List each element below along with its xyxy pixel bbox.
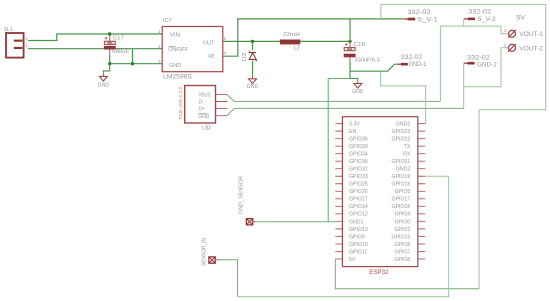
ESP32 pin label GPIO34	[349, 152, 368, 158]
wire C18 to ground node	[349, 62, 351, 78]
svg-text:1: 1	[25, 43, 28, 48]
svg-text:VBUS: VBUS	[199, 93, 212, 99]
label LM2596S	[163, 74, 192, 80]
svg-text:GPIO8: GPIO8	[394, 242, 410, 248]
label SL1	[4, 27, 13, 33]
wire D2 to ground	[252, 61, 254, 75]
screw terminal VOUT-2	[508, 44, 516, 52]
label GND-2	[477, 62, 497, 68]
junction switch node / C18	[348, 40, 351, 43]
inductor L2	[280, 40, 300, 45]
ESP32 pin label GPIO23	[392, 129, 411, 135]
svg-text:GPIO12: GPIO12	[349, 212, 368, 218]
wire 5V sense drop to C18 node	[349, 19, 351, 42]
pin number 1 (VOUT-1)	[504, 28, 507, 34]
svg-text:IC7: IC7	[163, 18, 172, 24]
svg-text:VOUT-2: VOUT-2	[519, 46, 543, 52]
svg-text:GPIO5: GPIO5	[394, 189, 410, 195]
label ESP32	[369, 270, 389, 276]
svg-text:GND: GND	[352, 89, 364, 95]
svg-text:TX: TX	[404, 144, 411, 150]
label 5_V-1	[418, 18, 439, 24]
ESP32 pin label GPIO15	[392, 234, 411, 240]
svg-text:1: 1	[504, 28, 507, 34]
wire ground branch to ESP32 GND2	[381, 71, 426, 123]
ESP32 pin label GPIO4	[394, 212, 410, 218]
pin label D+	[199, 107, 206, 113]
pin number 4 (FB)	[224, 51, 227, 56]
ESP32 pin label 3.3V	[349, 122, 360, 128]
wire to ground symbol near C17	[103, 64, 109, 72]
label GND (under C18)	[352, 89, 364, 95]
wire to VOUT-2	[464, 48, 509, 87]
svg-text:GND1: GND1	[349, 219, 364, 225]
ESP32 pin label RX	[403, 152, 411, 158]
pad 332-02 5_V-1	[404, 18, 416, 21]
pin label GND of U$2 with overline	[198, 113, 210, 120]
svg-text:22mH: 22mH	[283, 32, 300, 38]
ground symbol (under C18)	[354, 79, 362, 88]
svg-text:330uF/6.3: 330uF/6.3	[355, 58, 380, 64]
svg-text:GPIO11: GPIO11	[349, 249, 367, 255]
svg-text:4: 4	[224, 51, 227, 56]
ESP32 pin label GPIO25	[349, 182, 368, 188]
connector U$2 PCB USB-C	[185, 86, 228, 124]
label GND (under D2)	[247, 84, 259, 90]
svg-text:GPIO34: GPIO34	[349, 152, 368, 158]
svg-text:FB: FB	[208, 54, 214, 60]
svg-text:680uF: 680uF	[112, 49, 130, 55]
ESP32 pin label GND1	[349, 219, 364, 225]
wire 5_V-2 to VBUS rail	[440, 19, 501, 26]
pin number 1 of SL1	[25, 43, 28, 48]
pin label VIN	[170, 32, 181, 38]
wire ground node to GND-1 pad	[350, 64, 397, 71]
label GND_SENSOR	[239, 176, 245, 214]
pin number 3 (GND)	[158, 59, 161, 64]
ESP32 pin label GND3	[396, 167, 411, 173]
ESP32 pin label GPIO2	[394, 227, 410, 233]
svg-text:GND: GND	[198, 114, 210, 120]
label VOUT-2	[519, 46, 543, 52]
label C17	[113, 36, 124, 42]
junction on VIN rail at C17	[108, 32, 111, 35]
screw terminal VOUT-1	[508, 30, 516, 38]
op-amp regulator IC7 LM2596S box	[162, 27, 223, 72]
svg-text:GPIO18: GPIO18	[392, 182, 411, 188]
wire GND-2 riser	[463, 63, 465, 108]
svg-text:L2: L2	[294, 45, 300, 51]
svg-text:GPIO35: GPIO35	[349, 159, 368, 165]
pad 332-02 GND-1	[397, 63, 407, 66]
ESP32 pin label GPIO35	[349, 159, 368, 165]
ESP32 pin label GPIO14	[349, 204, 368, 210]
ESP32 pin label GPIO11	[349, 249, 367, 255]
svg-text:GPIO25: GPIO25	[349, 182, 368, 188]
svg-text:GND: GND	[247, 84, 259, 90]
pad SENSOR_IN	[209, 257, 215, 263]
label 5V	[516, 15, 525, 21]
svg-text:5V: 5V	[349, 257, 356, 263]
svg-text:ESP32: ESP32	[369, 270, 389, 276]
svg-text:U$2: U$2	[202, 126, 212, 132]
svg-text:VIN: VIN	[170, 32, 181, 38]
svg-text:GPIO4: GPIO4	[394, 212, 410, 218]
ESP32 pin label GPIO9	[349, 234, 365, 240]
value 22mH	[283, 32, 300, 38]
svg-text:GND3: GND3	[396, 167, 411, 173]
svg-text:GPIO9: GPIO9	[349, 234, 365, 240]
ESP32 pin label GPIO0	[394, 219, 410, 225]
svg-text:332-02: 332-02	[408, 10, 432, 16]
svg-text:GPIO27: GPIO27	[349, 197, 368, 203]
ESP32 pin label GPIO39	[349, 144, 368, 150]
svg-text:C18: C18	[353, 42, 365, 48]
svg-text:GPIO2: GPIO2	[394, 227, 410, 233]
junction ground rail / ON-OFF drop	[131, 62, 134, 65]
svg-text:2: 2	[504, 43, 507, 49]
wire USB GND line	[227, 108, 464, 115]
wire VBUS riser	[439, 26, 441, 101]
ESP32 pin label GPIO36	[349, 137, 368, 143]
svg-text:GPIO13: GPIO13	[349, 227, 368, 233]
svg-text:C17: C17	[113, 36, 124, 42]
svg-text:GPIO39: GPIO39	[349, 144, 368, 150]
wire ground rail to IC7 GND	[110, 63, 163, 65]
diode D2 (zener)	[249, 51, 256, 62]
svg-text:5: 5	[158, 44, 161, 49]
ESP32 pin label EN	[349, 129, 356, 135]
svg-text:GPIO16: GPIO16	[392, 204, 411, 210]
svg-text:GND-2: GND-2	[477, 62, 497, 68]
svg-text:D2: D2	[242, 52, 248, 61]
wire top 5V rail	[381, 4, 546, 288]
label L2	[294, 45, 300, 51]
wire OUT node down to D2	[252, 41, 254, 50]
ESP32 pin label GPIO17	[392, 197, 411, 203]
wire ESP32 5V pin to bottom rail	[335, 259, 479, 289]
label U$2	[202, 126, 212, 132]
svg-text:GND-1: GND-1	[409, 62, 428, 68]
svg-text:332-02: 332-02	[401, 55, 423, 61]
svg-text:GPIO0: GPIO0	[394, 219, 410, 225]
svg-text:332-02: 332-02	[468, 10, 492, 16]
svg-text:GPIO17: GPIO17	[392, 197, 411, 203]
svg-text:OUT: OUT	[203, 40, 215, 46]
svg-text:GPIO32: GPIO32	[349, 167, 368, 173]
ESP32 pin label GPIO7	[394, 249, 410, 255]
value 330uF/6.3	[355, 58, 380, 64]
svg-text:5_V-2: 5_V-2	[478, 17, 497, 23]
svg-text:GPIO7: GPIO7	[394, 249, 410, 255]
svg-text:GPIO15: GPIO15	[392, 234, 411, 240]
wire SENSOR_IN to GPIO19 rail	[220, 260, 238, 297]
wire FB to 5V sense line	[223, 19, 404, 56]
pin label FB	[208, 54, 214, 60]
ESP32 pin label GPIO33	[349, 174, 368, 180]
svg-text:GPIO36: GPIO36	[349, 137, 368, 143]
pad GND_SENSOR	[246, 219, 252, 225]
pin label OUT	[203, 40, 215, 46]
label 332-02 (GND-2)	[467, 55, 491, 61]
wire C17 to ground rail	[109, 55, 111, 64]
capacitor C18	[344, 41, 356, 62]
pad 332-02 GND-2	[464, 62, 475, 65]
svg-text:GPIO33: GPIO33	[349, 174, 368, 180]
wire OUT to L2 and C18 node	[223, 40, 350, 42]
ESP32 pin label GPIO27	[349, 197, 368, 203]
pin label VBUS	[199, 93, 212, 99]
svg-text:GND: GND	[98, 82, 110, 88]
svg-text:VOUT-1: VOUT-1	[519, 32, 543, 38]
svg-text:GPIO14: GPIO14	[349, 204, 368, 210]
wire GPIO19 to sensor rail	[238, 176, 449, 297]
label 5_V-2	[478, 17, 497, 23]
ESP32 pin label GPIO22	[392, 137, 411, 143]
ESP32 pin label GPIO16	[392, 204, 411, 210]
capacitor C17	[104, 34, 116, 55]
ESP32 pin label GPIO18	[392, 182, 411, 188]
ground symbol (under D2)	[249, 75, 257, 84]
label 332-02 (GND-1)	[401, 55, 423, 61]
ESP32 pin label GPIO19	[392, 174, 411, 180]
ESP32 pin label GPIO5	[394, 189, 410, 195]
svg-text:D-: D-	[199, 100, 205, 106]
svg-text:GPIO23: GPIO23	[392, 129, 411, 135]
ESP32 pin label GND2	[396, 122, 411, 128]
wire 5V sense to 5_V-1 pad	[380, 4, 382, 19]
svg-text:5_V-1: 5_V-1	[418, 18, 439, 24]
svg-text:EN: EN	[349, 129, 356, 135]
connector SL1	[6, 33, 24, 58]
svg-text:GPIO6: GPIO6	[394, 257, 410, 263]
label GND-1	[409, 62, 428, 68]
pin number 1 (VIN)	[158, 29, 161, 34]
pin number 2 (OUT)	[224, 36, 227, 41]
svg-text:1: 1	[158, 29, 161, 34]
svg-text:5V: 5V	[516, 15, 525, 21]
pin label GND of IC7	[169, 63, 182, 69]
wire ON-OFF drop to ground rail	[132, 49, 134, 64]
svg-text:GND2: GND2	[396, 122, 411, 128]
svg-text:ON/OFF: ON/OFF	[168, 47, 188, 53]
svg-text:GND: GND	[169, 63, 182, 69]
svg-text:GPIO21: GPIO21	[392, 159, 411, 165]
label 332-02 (5_V-2)	[468, 10, 492, 16]
svg-text:3.3V: 3.3V	[349, 122, 360, 128]
pin of SENSOR_IN pad	[215, 259, 219, 261]
label GND (near C17)	[98, 82, 110, 88]
label VOUT-1	[519, 32, 543, 38]
ESP32 pin label GPIO13	[349, 227, 368, 233]
pin number 2 of SL1	[25, 36, 28, 41]
junction OUT / D2	[251, 40, 254, 43]
label D2	[242, 52, 248, 61]
ESP32 pin label GPIO12	[349, 212, 368, 218]
svg-text:GND_SENSOR: GND_SENSOR	[239, 176, 245, 214]
label SENSOR_IN	[201, 238, 207, 266]
label 332-02 (5_V-1)	[408, 10, 432, 16]
ESP32 pin label TX	[404, 144, 411, 150]
label PCB USB-C 2.0	[178, 86, 184, 119]
pin label ON/OFF with overline	[168, 46, 188, 53]
ESP32 pin label 5V	[349, 257, 356, 263]
svg-text:RX: RX	[403, 152, 411, 158]
svg-text:D+: D+	[199, 107, 206, 113]
svg-text:PCB USB-C 2.0: PCB USB-C 2.0	[178, 86, 184, 119]
ESP32 pin label GPIO32	[349, 167, 368, 173]
pin label D-	[199, 100, 205, 106]
svg-text:2: 2	[25, 36, 28, 41]
wire SL1 pin2 to VIN rail	[28, 34, 162, 41]
ESP32 pin label GPIO8	[394, 242, 410, 248]
pin number 2 (VOUT-2)	[504, 43, 507, 49]
label C18	[353, 42, 365, 48]
svg-text:GPIO26: GPIO26	[349, 189, 368, 195]
svg-text:GPIO10: GPIO10	[349, 242, 368, 248]
pad 332-02 5_V-2	[464, 18, 475, 21]
ESP32 pin label GPIO26	[349, 189, 368, 195]
pin of GND_SENSOR pad	[253, 221, 257, 223]
wire ground branch down to GND_SENSOR rail	[328, 78, 350, 221]
wire SL1 pin1 / ON-OFF rail	[28, 48, 162, 50]
svg-text:GPIO19: GPIO19	[392, 174, 411, 180]
label IC7	[163, 18, 172, 24]
svg-text:SL1: SL1	[4, 27, 13, 33]
wire to VOUT-1	[501, 26, 508, 34]
wire VBUS to 5V riser	[227, 95, 440, 102]
wire GND_SENSOR to ESP32 GND1	[257, 221, 336, 223]
svg-text:LM2596S: LM2596S	[163, 74, 192, 80]
svg-text:3: 3	[158, 59, 161, 64]
value 680uF	[112, 49, 130, 55]
ESP32 pin label GPIO21	[392, 159, 411, 165]
ground symbol (near C17)	[99, 72, 107, 81]
svg-text:GPIO22: GPIO22	[392, 137, 411, 143]
svg-text:332-02: 332-02	[467, 55, 491, 61]
module ESP32 box and pins	[335, 117, 425, 267]
pin number 5 (ON/OFF)	[158, 44, 161, 49]
ESP32 pin label GPIO10	[349, 242, 368, 248]
junction ground rail / C17	[108, 62, 111, 65]
svg-text:SENSOR_IN: SENSOR_IN	[201, 238, 207, 266]
ESP32 pin label GPIO6	[394, 257, 410, 263]
wire ground node jog to ground symbol	[350, 78, 358, 79]
svg-text:2: 2	[224, 36, 227, 41]
